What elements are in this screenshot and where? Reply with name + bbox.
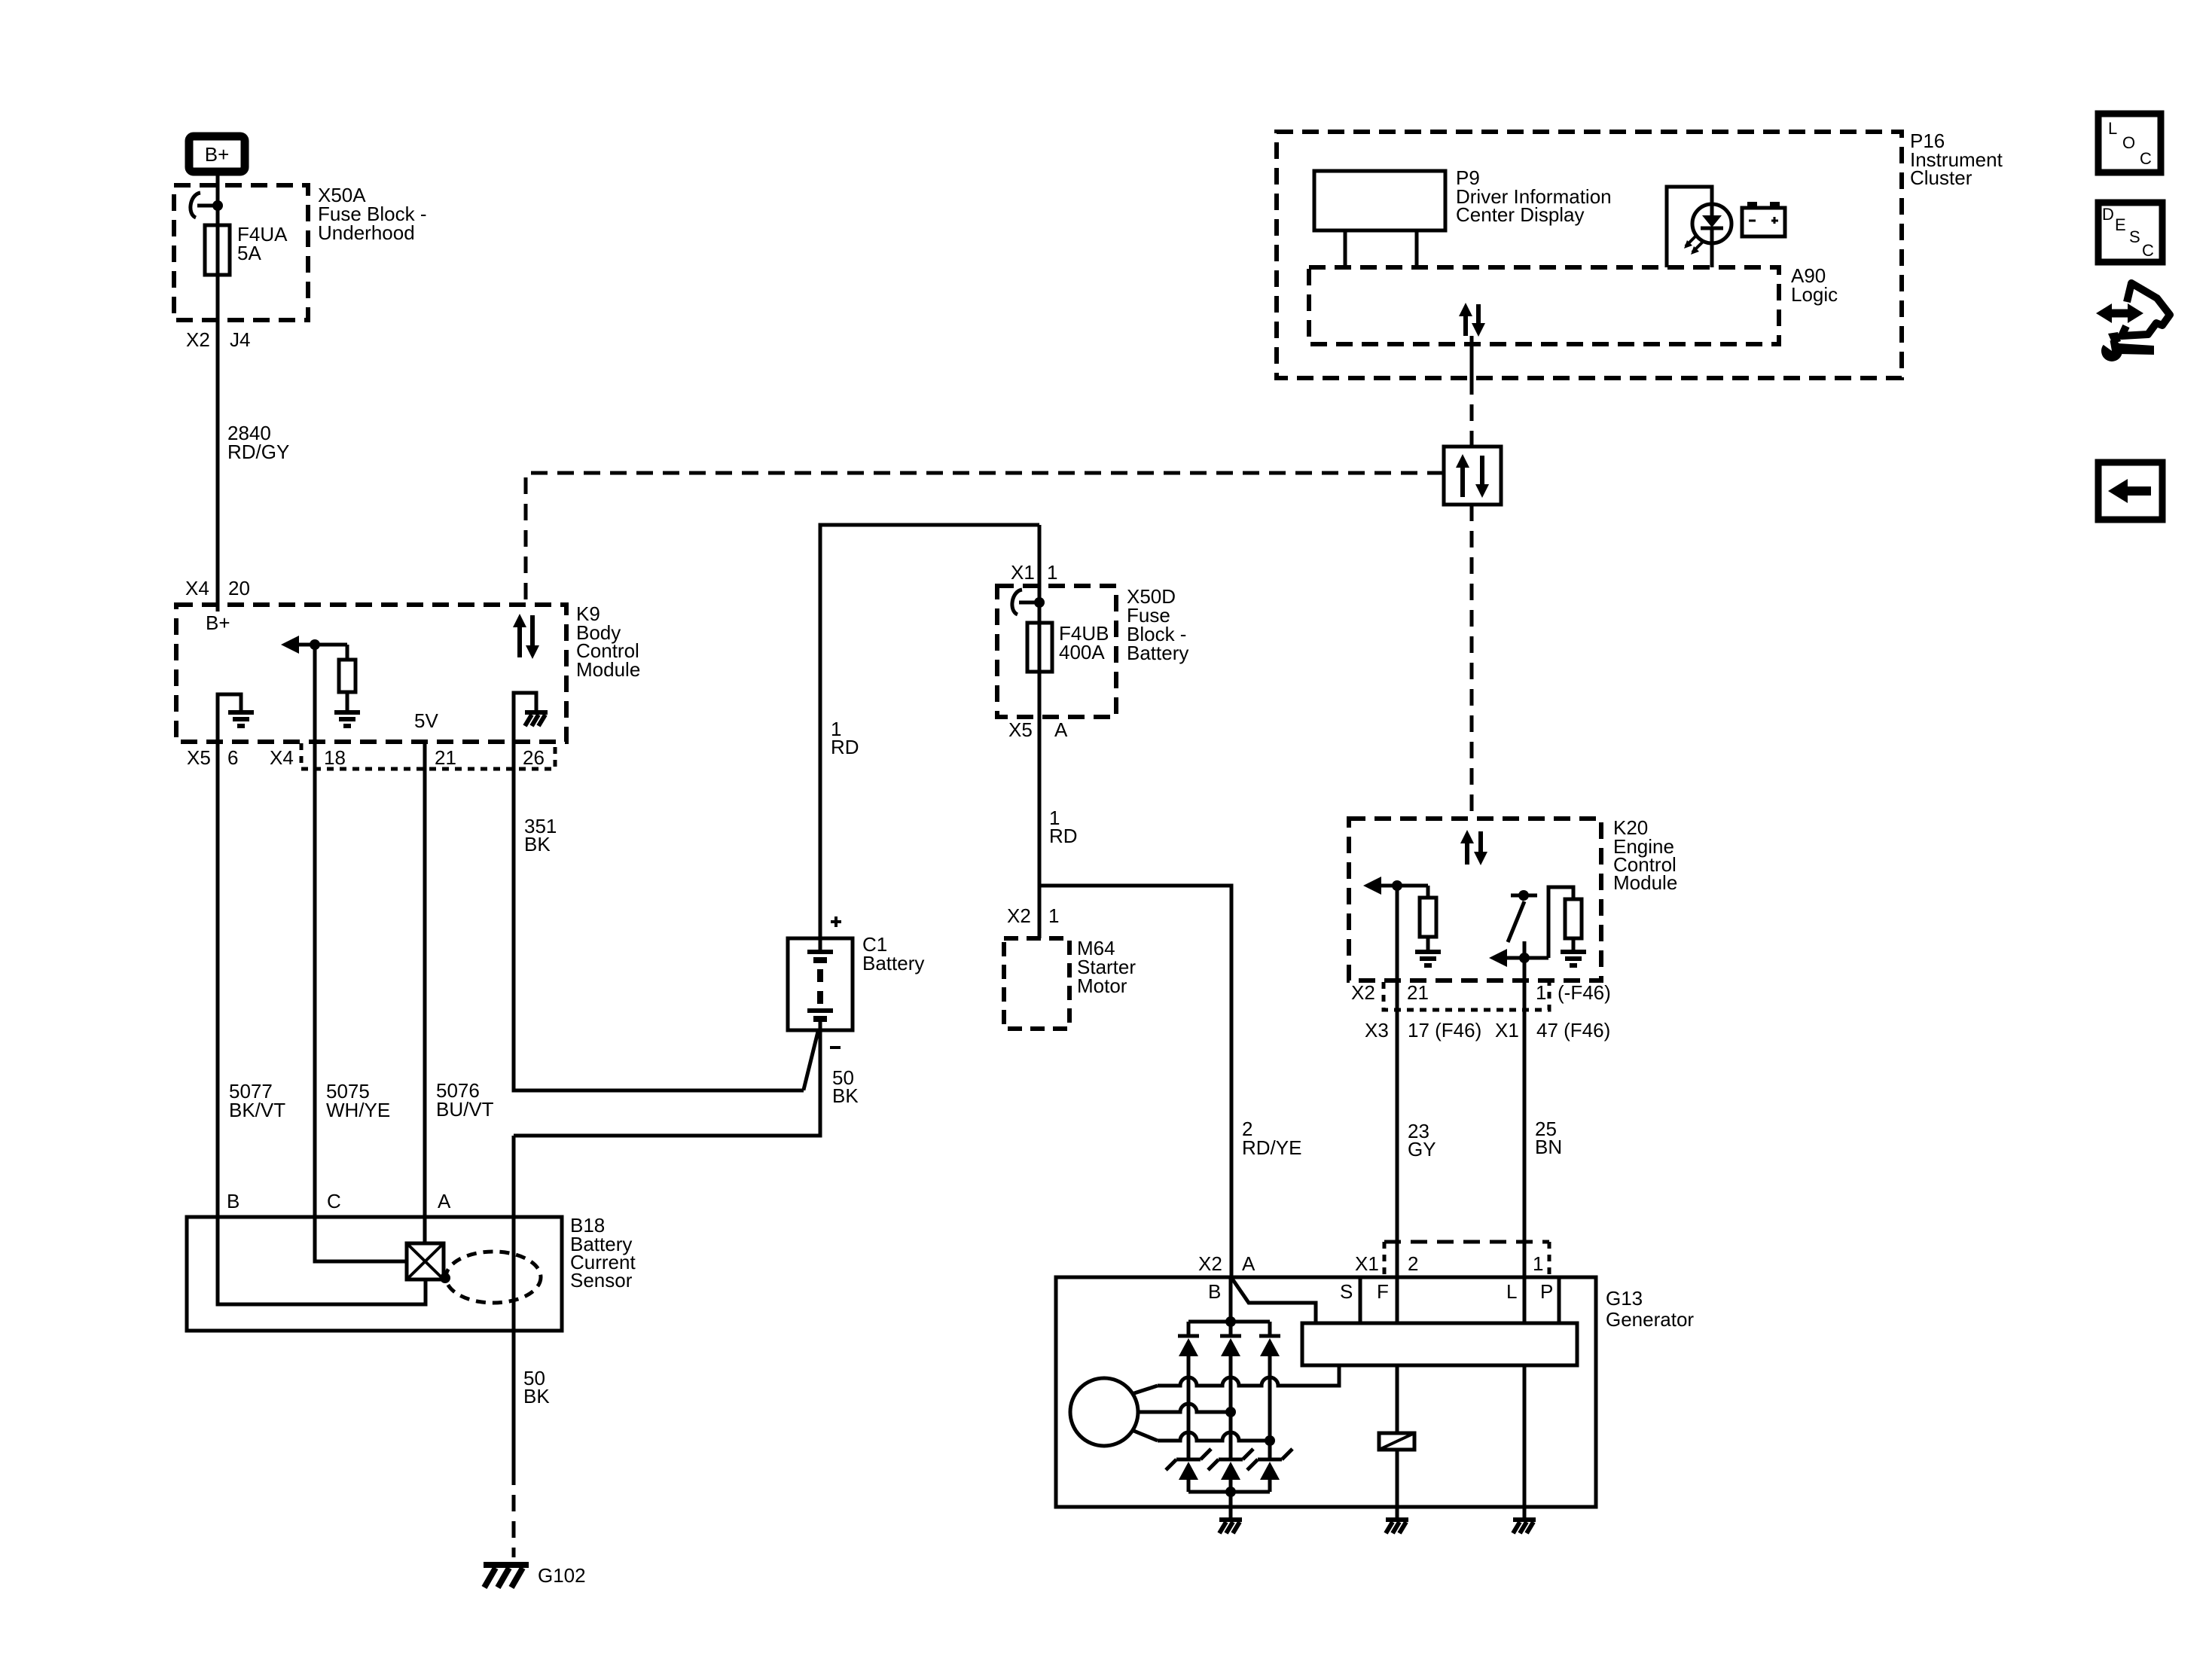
svg-text:X3: X3	[1365, 1019, 1389, 1041]
dashed serial data P16 to gateway	[1470, 378, 1474, 447]
svg-text:B+: B+	[205, 143, 230, 166]
svg-text:C: C	[2140, 149, 2152, 168]
svg-text:1: 1	[1536, 981, 1546, 1004]
label 5076 BU/VT	[436, 1079, 494, 1121]
K9 Body Control Module dashed box	[176, 605, 566, 742]
icon back arrow button	[2098, 462, 2162, 520]
label 5075 WH/YE	[326, 1080, 390, 1121]
label 23 GY	[1408, 1120, 1436, 1160]
connector dotted box above G13	[1384, 1242, 1549, 1276]
ground symbol K20 left	[1415, 952, 1441, 965]
label 2840 RD/GY	[227, 422, 289, 463]
svg-text:5A: 5A	[237, 242, 261, 264]
label 25 BN	[1535, 1118, 1562, 1158]
svg-text:400A: 400A	[1059, 641, 1105, 663]
svg-text:L: L	[1506, 1280, 1517, 1303]
svg-text:F: F	[1377, 1280, 1389, 1303]
svg-text:A: A	[1054, 718, 1068, 741]
svg-text:21: 21	[1407, 981, 1429, 1004]
diode D2 top	[1220, 1322, 1241, 1459]
svg-text:6: 6	[227, 746, 238, 769]
chassis ground symbol generator F	[1386, 1520, 1408, 1533]
label 1 RD (battery feed)	[831, 718, 859, 758]
pin labels X3 17 (F46) X1 47 (F46)	[1365, 1019, 1610, 1041]
battery positive terminal B+	[189, 136, 245, 172]
serial data gateway box	[1444, 447, 1501, 505]
wire rectifier to chassis ground	[1229, 1492, 1233, 1518]
fuse clip hook symbol X50D	[1012, 590, 1045, 615]
pin labels X5 6 X4 18 21 26	[187, 746, 545, 769]
fuse clip hook symbol X50A	[191, 193, 223, 218]
svg-text:47 (F46): 47 (F46)	[1536, 1019, 1610, 1041]
dashed serial data gateway to K20	[1470, 505, 1474, 819]
wire branch to generator B	[1039, 886, 1231, 1277]
pin labels X5 A (X50D bottom)	[1008, 718, 1068, 741]
wire serial data A90 to P16 edge	[1470, 336, 1474, 378]
fuse block X50A dashed box	[174, 185, 308, 320]
diode D1 top	[1178, 1322, 1199, 1459]
engine control module K20 dashed box	[1349, 819, 1601, 980]
svg-text:B: B	[1208, 1280, 1221, 1303]
svg-text:BN: BN	[1535, 1136, 1562, 1158]
wire resistor to ground	[346, 692, 349, 711]
serial data arrows inside K9	[513, 614, 539, 659]
serial data arrows inside A90	[1459, 303, 1485, 337]
icon LOC button	[2098, 114, 2161, 172]
wire battery negative jog to 351 BK	[804, 1032, 818, 1090]
pin labels X2 A X1 2 1 (generator)	[1198, 1252, 1543, 1275]
label P9 Driver Information Center Display	[1456, 166, 1612, 226]
resistor K20 right	[1565, 899, 1582, 938]
wire B+ to fuse block X50A	[216, 175, 220, 225]
svg-text:5V: 5V	[414, 709, 438, 732]
wire 50 BK through B18 to G102	[512, 1136, 516, 1468]
ground symbol K20 right	[1561, 952, 1586, 965]
label 2 RD/YE	[1242, 1118, 1301, 1159]
stator phase 3 winding	[1132, 1430, 1275, 1446]
wire resistor to ground K20 left	[1426, 937, 1430, 950]
wire 2840 RD/GY fuse to K9	[216, 275, 220, 611]
svg-text:G13: G13	[1606, 1287, 1643, 1310]
ground symbol K9 resistor	[334, 712, 360, 726]
dashed serial data bus to K9	[526, 473, 1444, 605]
svg-text:G102: G102	[538, 1564, 586, 1587]
svg-text:Center Display: Center Display	[1456, 203, 1585, 226]
wire 5076 BU/VT K9 21 to B18 A	[423, 742, 427, 1217]
pin labels X2 1 (starter)	[1007, 904, 1059, 927]
rectifier bottom bus	[1188, 1487, 1270, 1497]
wire K9 pin6 to ground	[218, 694, 241, 742]
svg-text:X2: X2	[186, 328, 210, 351]
display P9	[1314, 171, 1445, 267]
svg-text:WH/YE: WH/YE	[326, 1099, 390, 1121]
wire 351 BK K9 26 to battery negative	[514, 742, 804, 1090]
svg-text:O: O	[2122, 133, 2135, 152]
fuse block X50D dashed box	[997, 586, 1116, 717]
stator phase 2 winding	[1138, 1404, 1236, 1417]
pin labels X2 21 1 (-F46)	[1351, 981, 1611, 1004]
label B18 Battery Current Sensor	[570, 1214, 636, 1292]
label X50D Fuse Block - Battery	[1127, 585, 1188, 664]
label F4UA 5A	[237, 223, 288, 264]
wire B18 internal C	[315, 1217, 407, 1261]
svg-text:L: L	[2108, 119, 2117, 138]
dashed sensing loop ellipse	[446, 1252, 541, 1303]
pin labels X4 20	[185, 577, 250, 599]
svg-text:BK: BK	[524, 833, 551, 855]
fuse F4UA 5A	[205, 225, 230, 275]
rectifier top bus	[1188, 1316, 1270, 1327]
svg-text:RD: RD	[831, 736, 859, 758]
svg-text:20: 20	[228, 577, 250, 599]
svg-text:B: B	[227, 1190, 240, 1212]
connector dotted box under K20	[1384, 982, 1549, 1010]
wire battery positive 1 RD riser	[820, 525, 1039, 938]
label A90 Logic	[1791, 264, 1838, 306]
wire battery negative down to 50 BK run	[514, 1030, 820, 1136]
resistor K20 left	[1420, 898, 1436, 937]
wire L regulator to chassis ground	[1523, 1365, 1527, 1518]
K20 output arrow and junction	[1489, 949, 1548, 967]
svg-text:Generator: Generator	[1606, 1308, 1694, 1331]
wire K9 internal sense with arrow	[281, 636, 347, 660]
zener diode Z1 bottom	[1166, 1449, 1211, 1492]
svg-text:X5: X5	[1008, 718, 1033, 741]
label X50A Fuse Block - Underhood	[318, 184, 427, 244]
svg-text:Motor: Motor	[1077, 974, 1127, 997]
field coil symbol	[1379, 1433, 1414, 1450]
label 50 BK (battery negative)	[832, 1066, 859, 1107]
wire 23 GY K20 to generator F	[1396, 886, 1399, 1323]
svg-text:X2: X2	[1007, 904, 1031, 927]
pin labels X1 1 (X50D top)	[1011, 561, 1057, 584]
logic module A90 dashed box	[1309, 267, 1779, 344]
instrument cluster P16 dashed box	[1277, 132, 1902, 378]
svg-text:C: C	[327, 1190, 341, 1212]
svg-text:BK: BK	[832, 1084, 859, 1107]
svg-text:X4: X4	[270, 746, 294, 769]
wire B18 internal B	[218, 1217, 426, 1304]
svg-text:BK/VT: BK/VT	[229, 1099, 285, 1121]
connector X4 dotted box under K9	[301, 743, 555, 769]
zener diode Z3 bottom	[1247, 1449, 1292, 1492]
stator phase 1 winding	[1132, 1365, 1339, 1394]
starter motor M64 dashed box	[1004, 938, 1069, 1029]
B18 Battery Current Sensor box	[187, 1217, 562, 1331]
rotor winding circle	[1070, 1378, 1138, 1446]
label C1 Battery	[862, 933, 924, 974]
svg-text:Underhood: Underhood	[318, 221, 415, 244]
label K20 Engine Control Module	[1613, 816, 1677, 894]
wire field coil to chassis ground	[1396, 1450, 1399, 1518]
svg-text:X1: X1	[1355, 1252, 1379, 1275]
svg-text:P: P	[1540, 1280, 1553, 1303]
svg-text:S: S	[1340, 1280, 1353, 1303]
svg-text:Module: Module	[1613, 871, 1677, 894]
svg-text:X4: X4	[185, 577, 209, 599]
battery C1	[788, 938, 853, 1030]
label 5077 BK/VT	[229, 1080, 285, 1121]
chassis ground symbol generator L	[1513, 1520, 1536, 1533]
LED indicator bracket wire	[1667, 187, 1712, 267]
plus sign battery	[831, 916, 841, 927]
wire resistor to ground K20 right	[1572, 938, 1576, 950]
wire into X50D	[1038, 525, 1042, 623]
wire F regulator to field coil	[1396, 1365, 1399, 1433]
resistor inside K9	[339, 660, 355, 692]
minus sign battery	[830, 1046, 841, 1049]
svg-text:S: S	[2129, 227, 2140, 246]
pin labels X2 J4	[186, 328, 250, 351]
wire B18 internal A	[423, 1217, 427, 1243]
pin labels B C A	[227, 1190, 451, 1212]
svg-text:B+: B+	[206, 611, 230, 634]
terminal tick S	[1359, 1277, 1362, 1323]
svg-text:C: C	[2142, 241, 2154, 260]
wire K20 pullup loop	[1548, 887, 1573, 958]
svg-text:2: 2	[1408, 1252, 1418, 1275]
serial data arrows inside K20	[1460, 830, 1487, 865]
svg-text:X1: X1	[1011, 561, 1035, 584]
wire K9 pin26 to chassis ground	[514, 693, 536, 742]
chassis ground symbol generator B	[1219, 1520, 1242, 1533]
label 50 BK lower	[523, 1367, 550, 1407]
svg-text:Battery: Battery	[862, 952, 924, 974]
wire 5075 WH/YE K9 X4-18 to B18 C	[313, 645, 317, 1217]
regulator bar	[1302, 1323, 1577, 1365]
svg-text:Sensor: Sensor	[570, 1269, 633, 1292]
wire B terminal into rectifier	[1229, 1277, 1233, 1322]
fuse F4UB 400A	[1027, 623, 1052, 672]
K20 driver switch	[1508, 890, 1537, 980]
svg-text:Logic: Logic	[1791, 283, 1838, 306]
svg-text:RD/YE: RD/YE	[1242, 1136, 1301, 1159]
label P16 Instrument Cluster	[1910, 130, 2003, 189]
svg-text:A: A	[438, 1190, 451, 1212]
svg-text:D: D	[2102, 205, 2114, 224]
wire 1 RD X50D to starter junction	[1038, 672, 1042, 938]
zener diode Z2 bottom	[1208, 1449, 1253, 1492]
svg-text:X1: X1	[1495, 1019, 1519, 1041]
svg-text:X5: X5	[187, 746, 211, 769]
svg-text:17 (F46): 17 (F46)	[1408, 1019, 1481, 1041]
svg-text:18: 18	[324, 746, 346, 769]
svg-text:RD/GY: RD/GY	[227, 441, 289, 463]
label G13 Generator	[1606, 1287, 1694, 1331]
diode D3 top	[1259, 1322, 1280, 1459]
generator G13 box	[1056, 1277, 1596, 1507]
svg-text:Module: Module	[576, 658, 640, 681]
chassis ground symbol K9 pin26	[525, 712, 548, 726]
svg-text:Cluster: Cluster	[1910, 166, 1972, 189]
svg-text:BK: BK	[523, 1385, 550, 1407]
icon DESC button	[2098, 203, 2162, 262]
wire 25 BN K20 to generator L	[1523, 980, 1527, 1323]
wire 5077 BK/VT K9 X5-6 to B18 B	[216, 742, 220, 1217]
label 351 BK	[524, 815, 557, 855]
terminal labels B S F L P	[1208, 1280, 1553, 1303]
sensor element box with X	[407, 1243, 450, 1283]
LED indicator D1	[1684, 204, 1731, 267]
svg-text:A: A	[1242, 1252, 1256, 1275]
label M64 Starter Motor	[1077, 937, 1136, 997]
terminal tick P	[1558, 1277, 1561, 1323]
dashed wire 50 BK to G102	[512, 1468, 516, 1557]
svg-text:X2: X2	[1351, 981, 1375, 1004]
K20 sense arrow and junction	[1363, 877, 1428, 898]
ground G102	[484, 1565, 529, 1587]
ground symbol K9 pin6	[228, 712, 254, 726]
svg-text:Battery: Battery	[1127, 642, 1188, 664]
svg-text:E: E	[2115, 215, 2126, 234]
svg-text:GY: GY	[1408, 1138, 1436, 1160]
icon harness routing (double arrow and wrench)	[2095, 283, 2170, 361]
svg-text:26: 26	[523, 746, 545, 769]
battery telltale icon	[1742, 202, 1785, 236]
svg-text:1: 1	[1047, 561, 1057, 584]
svg-text:(-F46): (-F46)	[1558, 981, 1611, 1004]
svg-text:1: 1	[1533, 1252, 1543, 1275]
wire B terminal jog to regulator	[1232, 1279, 1316, 1323]
svg-text:RD: RD	[1049, 825, 1078, 847]
label F4UB 400A	[1059, 622, 1109, 663]
label 1 RD (starter feed)	[1049, 807, 1078, 847]
svg-text:1: 1	[1048, 904, 1059, 927]
label K9 Body Control Module	[576, 602, 640, 681]
svg-text:21: 21	[435, 746, 456, 769]
svg-text:X2: X2	[1198, 1252, 1222, 1275]
svg-text:J4: J4	[230, 328, 250, 351]
svg-text:BU/VT: BU/VT	[436, 1098, 494, 1121]
